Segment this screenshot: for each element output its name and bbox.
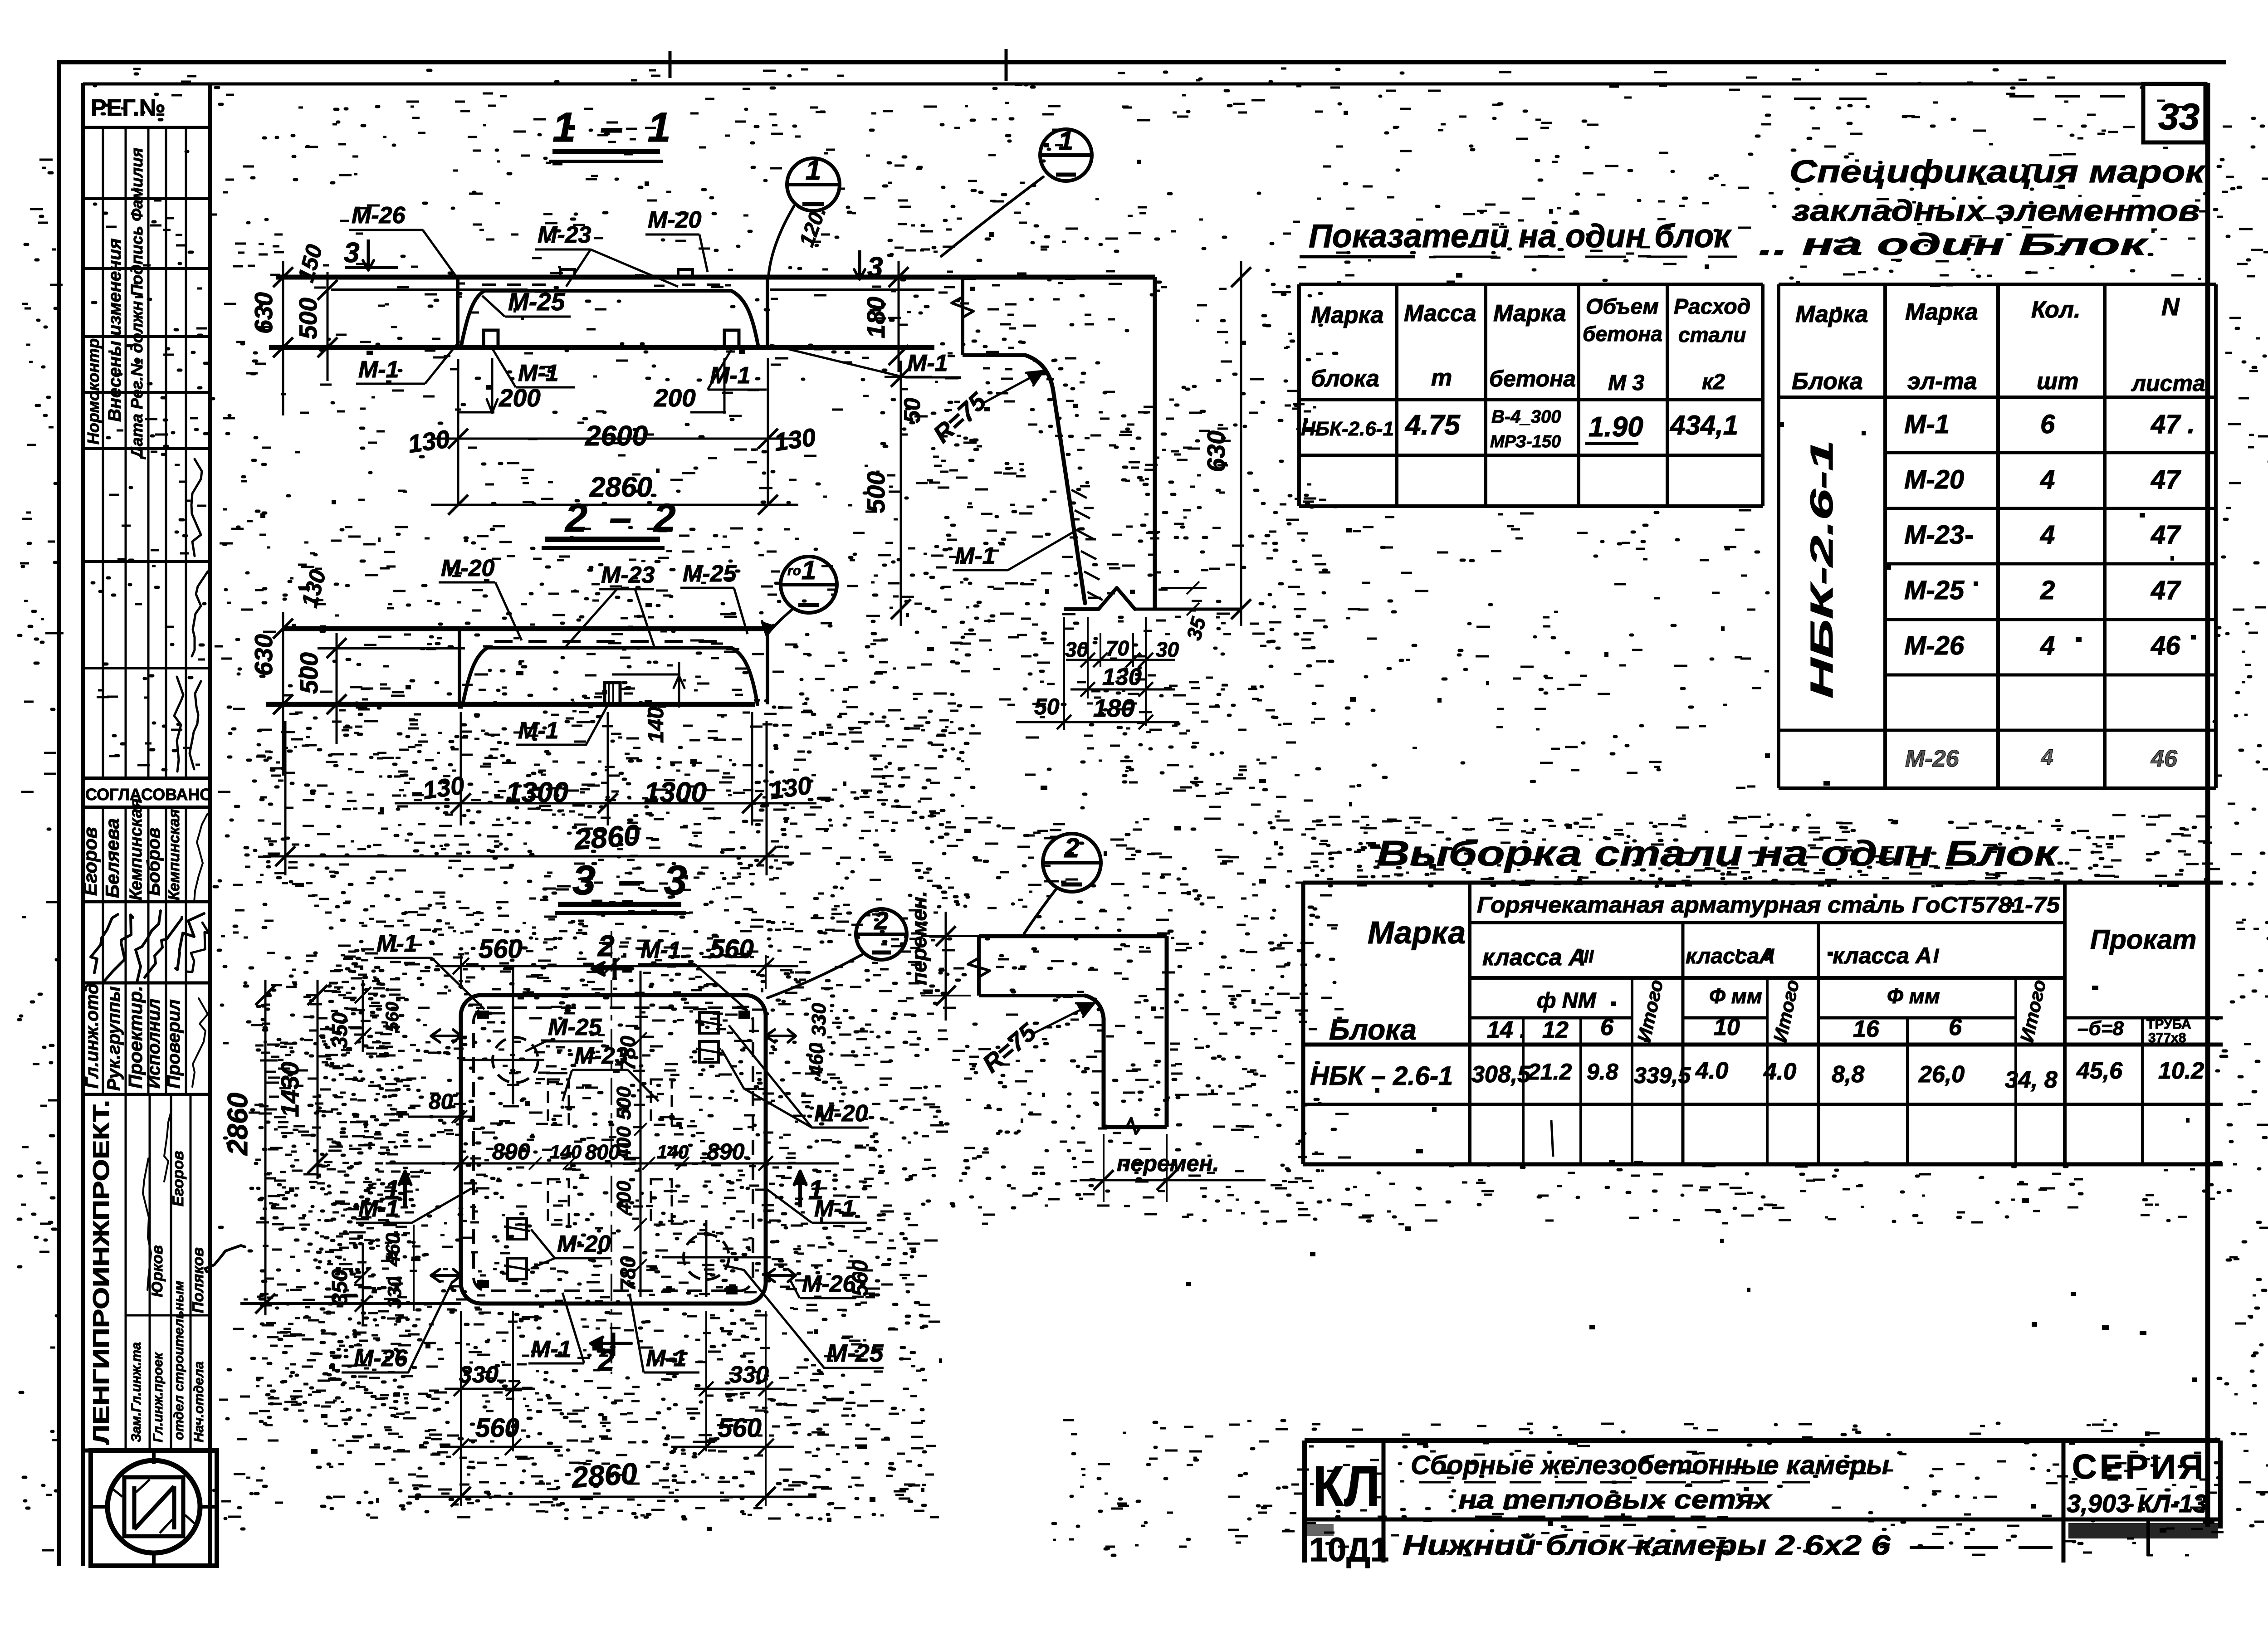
svg-text:330: 330 [384, 1277, 405, 1309]
page number box [2143, 84, 2205, 142]
svg-text:4.0: 4.0 [1763, 1059, 1796, 1085]
svg-text:Объем: Объем [1586, 295, 1659, 319]
svg-text:Поляков: Поляков [190, 1247, 207, 1313]
detail 1 hatch on sloped face [1071, 490, 1087, 498]
svg-text:2860: 2860 [222, 1093, 254, 1156]
svg-text:2: 2 [1064, 833, 1079, 863]
svg-text:Гл.инж.проек: Гл.инж.проек [151, 1352, 166, 1442]
svg-text:М-1: М-1 [358, 357, 399, 383]
plan 3-3 manhole circle lower [684, 1234, 729, 1279]
section 2-2 trough inner profile [463, 648, 758, 704]
svg-text:В-4_300: В-4_300 [1491, 407, 1561, 427]
registration tick marks on top border [669, 51, 672, 78]
svg-text:МРЗ-150: МРЗ-150 [1490, 432, 1561, 451]
svg-text:Марка: Марка [1368, 915, 1466, 950]
svg-text:560: 560 [479, 934, 523, 964]
detail 2 break mark bottom [1127, 1118, 1140, 1134]
svg-text:М-1: М-1 [955, 543, 996, 569]
svg-text:М-23: М-23 [1904, 520, 1964, 550]
svg-text:4.0: 4.0 [1695, 1058, 1728, 1084]
svg-text:500: 500 [295, 652, 323, 694]
svg-text:130: 130 [772, 423, 818, 456]
svg-text:46: 46 [2151, 746, 2178, 772]
svg-text:560: 560 [848, 1260, 872, 1296]
plan 3-3 inner vertical dimension line [640, 971, 642, 1297]
svg-text:30: 30 [1156, 638, 1179, 661]
svg-text:308,5: 308,5 [1471, 1061, 1531, 1088]
svg-text:70: 70 [1106, 636, 1129, 660]
section 2-2 bottom line [266, 702, 755, 707]
border frame right line [2205, 83, 2210, 1527]
section 1-1 hat outline [456, 277, 459, 347]
section 1-1 anchor M-1 right [724, 330, 739, 347]
svg-text:16: 16 [1853, 1016, 1880, 1042]
svg-text:2: 2 [2040, 576, 2055, 605]
section 2-2 left dimension 630 [282, 612, 284, 776]
svg-text:Кемпинская: Кемпинская [166, 809, 183, 900]
svg-text:Показатели на один блок: Показатели на один блок [1309, 218, 1732, 254]
section 2-2 anchor M-1 center [605, 683, 620, 704]
svg-text:ro: ro [787, 563, 801, 578]
svg-text:1: 1 [806, 155, 821, 186]
section 1-1 plateau dashes [482, 283, 496, 286]
svg-text:33: 33 [2158, 96, 2200, 137]
svg-text:М-1: М-1 [531, 1336, 572, 1363]
section 1-1 trough inner profile [461, 291, 758, 347]
svg-text:46: 46 [2151, 631, 2180, 660]
section 1-1 bottom dimension 200 left [491, 358, 494, 414]
svg-text:Проектир.: Проектир. [125, 986, 146, 1089]
sidebar REG No cell [83, 126, 210, 129]
section 1-1 detail callout circle 1 [787, 158, 840, 211]
section 1-1 dimension line 2860 [431, 504, 798, 506]
svg-text:1300: 1300 [644, 777, 707, 808]
svg-text:2600: 2600 [585, 420, 648, 452]
svg-text:НБК – 2.6-1: НБК – 2.6-1 [1310, 1061, 1453, 1091]
svg-text:Расход: Расход [1674, 295, 1750, 319]
svg-text:Егоров: Егоров [170, 1151, 187, 1206]
detail 1 break mark on left edge [952, 297, 973, 317]
border frame outer top line [58, 60, 2226, 64]
plan 3-3 callout circle 2 [856, 909, 907, 960]
svg-text:2 – 2: 2 – 2 [564, 495, 681, 540]
svg-text:Нормоконтр.: Нормоконтр. [84, 334, 103, 444]
plan 3-3 left dimension 1430 [317, 980, 319, 1179]
svg-text:12: 12 [1542, 1017, 1569, 1043]
sidebar approval names block [83, 900, 210, 903]
svg-text:стали: стали [1678, 323, 1746, 347]
section 1-1 embed plates on top [560, 269, 575, 277]
svg-text:140: 140 [644, 707, 668, 743]
sidebar change-table grid [83, 197, 210, 200]
svg-text:21.2: 21.2 [1527, 1059, 1572, 1084]
svg-text:377х8: 377х8 [2148, 1030, 2186, 1045]
svg-text:1: 1 [802, 556, 816, 585]
svg-text:130: 130 [768, 771, 813, 805]
plan 3-3 vertical centerline [611, 931, 612, 1374]
svg-text:34, 8: 34, 8 [2005, 1067, 2058, 1093]
svg-text:КЛ: КЛ [1313, 1454, 1380, 1518]
plan 3-3 outer outline rounded [461, 995, 766, 1304]
svg-text:СОГЛАСОВАНО: СОГЛАСОВАНО [85, 785, 212, 804]
svg-text:Внесены изменения: Внесены изменения [105, 239, 125, 422]
sidebar outer box [81, 83, 85, 1566]
svg-text:Гл.инж.отд: Гл.инж.отд [82, 983, 102, 1089]
section 1-1 bottom line [269, 345, 934, 350]
svg-text:200: 200 [499, 384, 541, 412]
svg-text:330: 330 [808, 1003, 830, 1036]
svg-text:3,903 КЛ-13: 3,903 КЛ-13 [2067, 1489, 2207, 1518]
detail 1 dimension 630 right [1240, 261, 1242, 626]
svg-text:М-20: М-20 [1904, 465, 1964, 494]
sidebar signatures block [83, 982, 210, 985]
plan 3-3 centerline dimensions 890 140 800 140 890 [529, 1157, 542, 1170]
svg-text:М-1: М-1 [907, 350, 948, 376]
svg-text:47: 47 [2151, 520, 2181, 550]
detail 2 leader [1024, 888, 1057, 933]
svg-text:339,5: 339,5 [1634, 1063, 1691, 1088]
svg-text:3: 3 [867, 252, 883, 283]
svg-text:Нижний блок камеры 2 6х2 6: Нижний блок камеры 2 6х2 6 [1403, 1530, 1891, 1561]
svg-text:350: 350 [328, 1269, 352, 1305]
svg-text:НБК-2.6-1: НБК-2.6-1 [1804, 440, 1839, 698]
section 1-1 cut mark 3 right [858, 250, 861, 278]
svg-text:М-23: М-23 [601, 562, 655, 588]
svg-text:130: 130 [406, 425, 452, 458]
svg-text:классаА: классаА [1686, 944, 1775, 968]
svg-text:Кемпинская: Кемпинская [127, 798, 146, 900]
svg-text:бетона: бетона [1583, 322, 1662, 346]
svg-text:47 .: 47 . [2151, 410, 2195, 439]
svg-text:Ф мм: Ф мм [1709, 984, 1762, 1008]
svg-text:М-1: М-1 [518, 360, 559, 386]
plan 3-3 lifting loop right upper [766, 1030, 796, 1042]
svg-text:500: 500 [294, 298, 322, 339]
svg-text:СЕРИЯ: СЕРИЯ [2072, 1448, 2206, 1486]
plan 3-3 lifting loop left upper [431, 1030, 461, 1042]
svg-text:закладных элементов: закладных элементов [1792, 194, 2200, 227]
svg-text:М-26: М-26 [1904, 631, 1965, 660]
sidebar signature scribbles in change table [190, 681, 201, 769]
table spetsifikatsiya grid [1777, 284, 1780, 788]
detail 2 wall outline [979, 934, 1167, 938]
svg-text:бетона: бетона [1489, 366, 1576, 391]
svg-text:ЛЕНГИПРОИНЖПРОЕКТ.: ЛЕНГИПРОИНЖПРОЕКТ. [88, 1100, 114, 1445]
svg-text:–б=8: –б=8 [2077, 1017, 2124, 1040]
plan 3-3 bottom edge extension line [240, 1302, 461, 1305]
plan 3-3 manhole circle upper [493, 1037, 538, 1083]
section 1-1 bottom dimension 200 right [723, 358, 726, 414]
svg-text:НБК-2.6-1: НБК-2.6-1 [1301, 418, 1394, 440]
sidebar SOGLASOVANO cell [83, 776, 210, 780]
section 2-2 left dimension 500 [336, 633, 338, 744]
svg-text:Егоров: Егоров [79, 827, 101, 896]
stray dashes above heading [1794, 98, 1869, 100]
svg-text:1300: 1300 [506, 777, 568, 808]
section 1-1 top surface line [276, 275, 1155, 280]
svg-text:N: N [2161, 293, 2180, 321]
svg-text:М-26: М-26 [1905, 746, 1960, 772]
section 2-2 callout circle [781, 557, 837, 613]
svg-text:500: 500 [613, 1086, 635, 1120]
svg-text:4: 4 [2040, 465, 2055, 494]
svg-text:560: 560 [710, 934, 754, 964]
svg-text:Рук.группы: Рук.группы [104, 986, 124, 1091]
svg-text:200: 200 [654, 384, 696, 412]
title block bottom smudge [2068, 1523, 2218, 1538]
detail 2 callout circle [1043, 834, 1101, 892]
svg-text:Нач.отдела: Нач.отдела [191, 1361, 206, 1442]
svg-text:47: 47 [2151, 465, 2181, 494]
detail 1 wall outline [1153, 277, 1157, 609]
svg-text:Блока: Блока [1792, 368, 1863, 395]
svg-text:10Д1: 10Д1 [1309, 1531, 1389, 1568]
svg-text:М-20: М-20 [648, 207, 702, 233]
plan 3-3 anchor squares center [508, 1218, 527, 1239]
svg-text:9.8: 9.8 [1587, 1059, 1618, 1084]
section 1-1 dimension line 2600 [457, 359, 459, 506]
section 1-1 callout leader [768, 206, 794, 277]
plan 3-3 top dimension 560 left [460, 955, 462, 989]
plan 3-3 left dimension 2860 vertical [264, 980, 267, 1315]
svg-text:отдел строительным: отдел строительным [171, 1281, 186, 1440]
detail 1 dimension 500 [900, 361, 902, 626]
svg-text:800: 800 [585, 1140, 620, 1164]
detail 1 bottom dimensions 30 70 30 [1087, 617, 1089, 698]
sidebar logo hatch [136, 1480, 150, 1492]
svg-text:I: I [1933, 945, 1939, 967]
detail 1 leader curve [941, 177, 1043, 256]
svg-text:II: II [1765, 946, 1775, 965]
svg-text:М-25: М-25 [1904, 576, 1965, 605]
detail 1 dimension 50 upper [885, 376, 932, 378]
detail 1 dimension 180 bottom [1063, 617, 1065, 730]
plan 3-3 bottom dimension 330 pair [512, 1311, 514, 1451]
svg-text:М-1: М-1 [518, 718, 559, 744]
svg-text:330: 330 [729, 1362, 769, 1388]
section 2-2 hat outline [458, 629, 461, 704]
svg-text:III: III [1579, 947, 1594, 967]
svg-text:блока: блока [1311, 366, 1379, 392]
plan 3-3 anchor squares top right [699, 1012, 719, 1033]
detail 1 dimension 130 [1070, 689, 1175, 691]
section 1-1 left dimension 500 [327, 272, 329, 381]
svg-text:26,0: 26,0 [1918, 1061, 1965, 1088]
detail 2 break mark left [968, 958, 990, 977]
svg-text:М-25: М-25 [826, 1339, 884, 1367]
section 2-2 plateau dashed line [494, 640, 513, 643]
plan 3-3 key rects M-23 [548, 1079, 569, 1125]
svg-text:50: 50 [899, 398, 925, 423]
svg-text:45,6: 45,6 [2076, 1058, 2123, 1084]
svg-text:4: 4 [2040, 520, 2055, 550]
table vyborka stray mark [1551, 1120, 1553, 1157]
svg-text:630: 630 [249, 634, 278, 676]
svg-text:.. на один Блок: .. на один Блок [1759, 227, 2149, 262]
detail 1 dimension 180 [898, 261, 900, 372]
svg-text:4: 4 [2041, 746, 2053, 770]
sidebar logo circle emblem [108, 1460, 200, 1553]
svg-text:Спецификация марок: Спецификация марок [1789, 154, 2206, 189]
svg-text:10.2: 10.2 [2158, 1058, 2204, 1084]
svg-text:Ф мм: Ф мм [1887, 984, 1940, 1008]
svg-text:Дата Рег.№ должн Подпись Фамил: Дата Рег.№ должн Подпись Фамилия [127, 148, 146, 459]
svg-text:4.75: 4.75 [1404, 410, 1461, 441]
svg-text:560: 560 [718, 1413, 762, 1443]
svg-text:Марка: Марка [1795, 301, 1868, 327]
sidebar role titles block [83, 1093, 210, 1096]
svg-text:47: 47 [2151, 576, 2181, 605]
plan 3-3 bottom dimension 560 pair [460, 1311, 462, 1506]
svg-text:РЕГ.№: РЕГ.№ [91, 95, 166, 121]
svg-text:класса А: класса А [1482, 944, 1586, 971]
svg-text:Зам.Гл.инж.та: Зам.Гл.инж.та [129, 1342, 144, 1442]
svg-text:400: 400 [613, 1181, 635, 1215]
svg-text:Горячекатаная арматурная ста: Горячекатаная арматурная сталь ГоСТ5781-… [1477, 892, 2060, 918]
svg-text:эл-та: эл-та [1907, 368, 1977, 395]
plan 3-3 left dimension 350 lower [362, 1243, 364, 1324]
detail 1 bottom edge with key bump [1064, 607, 1099, 611]
svg-text:Беляева: Беляева [102, 818, 123, 898]
section 1-1 wing underside lines [331, 288, 528, 291]
svg-text:434,1: 434,1 [1670, 410, 1738, 440]
svg-text:14 .: 14 . [1487, 1017, 1526, 1043]
section 1-1 left dimension 630 [282, 261, 284, 415]
svg-text:Масса: Масса [1404, 300, 1476, 327]
svg-text:4: 4 [2040, 631, 2055, 660]
svg-text:Прокат: Прокат [2090, 924, 2196, 955]
svg-text:ф NМ: ф NМ [1537, 989, 1596, 1013]
svg-text:30: 30 [1065, 638, 1089, 661]
border frame inner top line [83, 83, 2207, 86]
svg-text:М-25: М-25 [548, 1014, 602, 1040]
section 2-2 dimension 140 vertical [612, 674, 680, 676]
svg-text:Марка: Марка [1905, 299, 1978, 325]
sidebar logo box [83, 1449, 210, 1453]
svg-text:Проверил: Проверил [164, 999, 184, 1089]
svg-text:10: 10 [1714, 1014, 1740, 1040]
svg-text:класса А: класса А [1833, 943, 1932, 968]
section 2-2 bottom dimensions 130 1300 1300 130 [460, 712, 462, 825]
plan 3-3 lifting loop right lower [766, 1269, 796, 1282]
svg-text:890: 890 [707, 1139, 745, 1164]
svg-text:М 3: М 3 [1608, 371, 1644, 395]
table vyborka grid [1303, 881, 2223, 885]
section 2-2 top surface line [283, 626, 771, 631]
svg-text:6: 6 [1600, 1014, 1614, 1040]
svg-text:листа: листа [2131, 371, 2205, 396]
svg-text:1.90: 1.90 [1589, 411, 1643, 443]
svg-text:Кол.: Кол. [2031, 297, 2081, 323]
section 2-2 dimension 2860 [284, 721, 287, 875]
section 1-1 anchor M-1 left [484, 330, 498, 347]
svg-text:Исполнил: Исполнил [144, 999, 164, 1089]
svg-text:Выборка стали на один: Выборка стали на один Блок [1377, 833, 2059, 873]
svg-text:М-1: М-1 [1904, 410, 1950, 439]
svg-text:6: 6 [2040, 410, 2055, 439]
border frame outer left line [57, 60, 61, 1566]
sidebar stray signature scrawl [205, 1245, 245, 1272]
svg-text:М-25: М-25 [683, 561, 737, 587]
svg-text:330: 330 [459, 1362, 499, 1388]
svg-text:6: 6 [1949, 1014, 1962, 1040]
plan 3-3 horizontal centerline [386, 1162, 839, 1165]
plan 3-3 bottom dimension 2860 [408, 1496, 816, 1498]
plan 3-3 left dimension 350 upper [362, 980, 364, 1052]
svg-text:т: т [1431, 365, 1452, 391]
svg-text:130: 130 [1102, 664, 1142, 690]
plan 3-3 corner anchors M-1 [477, 1011, 489, 1019]
sidebar organization block LENGIPROINZHPROEKT [125, 1094, 127, 1450]
svg-text:ТРУБА: ТРУБА [2146, 1017, 2191, 1032]
svg-text:к2: к2 [1702, 370, 1725, 394]
svg-text:Марка: Марка [1493, 300, 1566, 327]
detail 1 callout circle [1040, 129, 1092, 181]
plan 3-3 lifting loop left lower [431, 1269, 461, 1282]
plan 3-3 inner dashed wall line [474, 1008, 753, 1291]
title block outline [1305, 1438, 2220, 1443]
svg-text:8,8: 8,8 [1832, 1061, 1864, 1088]
svg-text:50: 50 [1034, 694, 1060, 719]
section 2-2 wing underside lines [318, 647, 465, 650]
svg-text:Бобров: Бобров [144, 827, 164, 896]
svg-text:шт: шт [2037, 368, 2078, 395]
table pokazateli grid [1299, 283, 1763, 286]
svg-text:2: 2 [597, 929, 615, 962]
